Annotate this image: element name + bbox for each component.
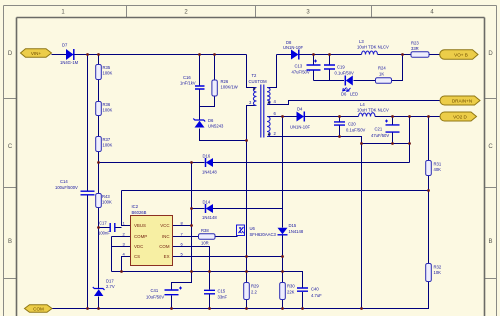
svg-text:R38: R38 — [201, 228, 209, 233]
zener D9 — [193, 119, 205, 128]
capacitor C40 — [297, 288, 308, 291]
svg-text:R23: R23 — [411, 41, 419, 46]
wire pin2 stub — [112, 236, 131, 238]
port COM — [25, 305, 53, 313]
svg-text:D15: D15 — [289, 223, 297, 228]
capacitor C16 — [195, 86, 205, 89]
zener D17 — [93, 287, 105, 296]
wire secondary1 top riser — [267, 55, 277, 88]
svg-text:C21: C21 — [375, 127, 383, 132]
wire COM rail — [52, 282, 429, 309]
junction dots COM rail — [86, 307, 89, 310]
LED D6 — [343, 76, 353, 92]
svg-text:C20: C20 — [348, 122, 356, 127]
svg-text:0.1uF/50V: 0.1uF/50V — [335, 71, 355, 76]
svg-text:EX: EX — [164, 254, 170, 259]
svg-text:VO+ B: VO+ B — [454, 53, 468, 58]
wire pin4 drain rail — [267, 101, 440, 105]
wire C20 drop — [339, 117, 341, 137]
svg-text:C19: C19 — [337, 65, 345, 70]
svg-text:D4: D4 — [297, 107, 303, 112]
transformer T2 secondary top coil — [267, 88, 270, 105]
wire C40 branch — [283, 272, 303, 288]
wire secondary2 rail2 — [267, 116, 440, 118]
wire primary top drop — [247, 55, 257, 88]
svg-text:4.7uF: 4.7uF — [311, 293, 322, 298]
wire R31 bottom — [428, 176, 430, 191]
wire railB feedback — [122, 190, 429, 192]
inductor L4 — [359, 113, 376, 117]
optocoupler U6 — [237, 225, 245, 236]
capacitor C21 electrolytic — [385, 120, 400, 133]
resistor R26 — [212, 80, 217, 96]
resistor R37 — [96, 137, 102, 152]
capacitor C14 — [81, 191, 95, 195]
svg-text:1N4148: 1N4148 — [202, 170, 217, 175]
svg-text:D6 LED: D6 LED — [341, 92, 358, 97]
wire pin5 EX rail — [173, 256, 283, 258]
resistor R43 — [96, 194, 102, 208]
svg-text:10uF/50V: 10uF/50V — [146, 295, 164, 300]
junction dots railA — [97, 161, 100, 164]
svg-text:100K: 100K — [103, 71, 113, 76]
resistor R36 — [96, 102, 102, 116]
svg-text:2.7V: 2.7V — [106, 284, 115, 289]
junction dots rail54 — [86, 53, 89, 56]
svg-text:10R: 10R — [201, 240, 209, 245]
junction dot primary return — [245, 139, 248, 142]
svg-text:10K: 10K — [434, 270, 442, 275]
svg-text:R35: R35 — [103, 65, 111, 70]
wire pin8 stub — [173, 225, 192, 227]
svg-text:VBUS: VBUS — [134, 223, 146, 228]
svg-text:D16: D16 — [203, 154, 211, 159]
svg-text:R24: R24 — [378, 66, 386, 71]
transformer T2 secondary bottom coil — [267, 117, 270, 137]
svg-text:100K: 100K — [103, 108, 113, 113]
resistor R32 — [426, 264, 432, 282]
port VO+ B — [440, 50, 478, 60]
row ticks — [4, 99, 17, 279]
svg-text:R32: R32 — [434, 265, 442, 270]
svg-text:22K: 22K — [287, 290, 295, 295]
svg-text:C13: C13 — [295, 64, 303, 69]
capacitor C19 — [324, 65, 335, 69]
resistor R30 — [280, 283, 286, 300]
wire primary return down to opto — [246, 141, 248, 283]
svg-text:100K: 100K — [103, 143, 113, 148]
wire snubber bottom link — [200, 90, 215, 107]
resistor R35 — [96, 65, 102, 80]
svg-text:C17: C17 — [99, 221, 107, 226]
wire mid ground riser — [361, 144, 363, 309]
svg-text:0.1uF/50V: 0.1uF/50V — [346, 128, 366, 133]
svg-text:1nF/1kV: 1nF/1kV — [180, 81, 196, 86]
wire rail143 — [362, 143, 410, 145]
wire railC — [192, 208, 283, 210]
wire C41 bottom — [171, 296, 173, 309]
wire C19 drop — [329, 55, 331, 81]
svg-text:D17: D17 — [106, 279, 114, 284]
svg-text:CUSTOM: CUSTOM — [249, 79, 268, 84]
wire pin1 VBUS riser — [122, 191, 131, 226]
svg-text:10uH TDK NLCV: 10uH TDK NLCV — [357, 107, 389, 112]
svg-text:R43: R43 — [102, 194, 110, 199]
wire C40 bottom — [302, 292, 304, 309]
junction dots EX rail — [245, 255, 248, 258]
diode D8 — [291, 50, 299, 60]
svg-text:UN5243: UN5243 — [208, 124, 224, 129]
svg-text:C15: C15 — [218, 289, 226, 294]
resistor R38 — [199, 234, 216, 240]
svg-text:47uF/50V: 47uF/50V — [292, 70, 310, 75]
svg-text:D14: D14 — [203, 200, 211, 205]
svg-text:33R: 33R — [411, 46, 419, 51]
svg-text:INC: INC — [162, 234, 170, 239]
resistor R23 — [411, 52, 429, 58]
svg-text:40K: 40K — [434, 167, 442, 172]
port DRAIN — [440, 96, 480, 105]
svg-text:SFH620AAC3: SFH620AAC3 — [250, 232, 277, 237]
wire C21 drop — [392, 117, 394, 144]
svg-text:10uH TDK NLCV: 10uH TDK NLCV — [357, 44, 389, 49]
svg-text:CS: CS — [134, 254, 140, 259]
svg-text:C14: C14 — [60, 179, 68, 184]
transformer T2 primary coil — [253, 88, 256, 106]
svg-text:COM: COM — [159, 244, 170, 249]
diode D15 — [278, 228, 288, 235]
capacitor C20 — [334, 122, 345, 125]
wire R35 chain — [98, 55, 100, 309]
capacitor C41 electrolytic — [165, 287, 183, 295]
svg-text:100K/1W: 100K/1W — [221, 85, 238, 90]
wire zener D9 drop — [199, 107, 201, 120]
wire C15 bottom — [209, 295, 211, 309]
wire LED return rail — [314, 55, 403, 81]
column ticks — [127, 6, 372, 18]
wire CS rail — [112, 271, 283, 273]
svg-text:U6: U6 — [250, 226, 256, 231]
IC2 body — [131, 216, 173, 266]
svg-text:B: B — [8, 239, 12, 245]
wire secondary1 output rail — [277, 54, 441, 56]
svg-text:UN1N-10F: UN1N-10F — [290, 125, 310, 130]
svg-text:D: D — [488, 51, 493, 57]
wire pin7 stub to R38 — [173, 236, 199, 238]
wire C41 jog — [172, 272, 192, 290]
junction dots railC — [190, 207, 193, 210]
svg-text:R37: R37 — [103, 137, 111, 142]
wire R30 bottom — [282, 300, 284, 309]
svg-text:C40: C40 — [311, 287, 319, 292]
svg-text:1N4148: 1N4148 — [289, 229, 304, 234]
wire C14 branch bottom — [87, 196, 89, 309]
wire C13 drop — [313, 55, 315, 81]
svg-text:VIN+: VIN+ — [31, 51, 42, 56]
wire D15 to R30 — [282, 235, 284, 283]
wire C16 top drop — [199, 55, 201, 86]
svg-text:R26: R26 — [221, 79, 229, 84]
capacitor C17 — [110, 223, 115, 232]
svg-text:UN1N-10F: UN1N-10F — [283, 45, 303, 50]
svg-text:2.2: 2.2 — [251, 290, 257, 295]
svg-text:1N4G-1M: 1N4G-1M — [60, 60, 79, 65]
wire rail2 to railA riser — [409, 117, 411, 163]
svg-text:47uF/50V: 47uF/50V — [371, 133, 389, 138]
resistor R29 — [244, 283, 250, 300]
diode D4 — [297, 112, 305, 122]
svg-text:1K: 1K — [379, 72, 384, 77]
transformer polarity dots — [253, 88, 270, 136]
svg-text:DRAIN+N: DRAIN+N — [452, 99, 472, 104]
svg-text:COM: COM — [33, 307, 44, 312]
wire railA — [99, 162, 410, 164]
svg-text:L4: L4 — [360, 102, 365, 107]
svg-text:R29: R29 — [251, 284, 259, 289]
svg-text:IC2: IC2 — [132, 204, 139, 209]
diode D7 — [66, 49, 74, 60]
svg-text:COMP: COMP — [134, 234, 147, 239]
svg-text:C16: C16 — [183, 75, 191, 80]
wire VCC riser — [191, 163, 193, 272]
port VIN+ — [21, 49, 52, 58]
svg-text:33nF: 33nF — [218, 295, 228, 300]
wire C17 tap — [99, 227, 122, 229]
junction dot C17 tap — [97, 226, 100, 229]
capacitor C15 — [204, 290, 215, 294]
wire VIN+ rail — [52, 54, 247, 56]
wire pin4 CS drop — [122, 257, 131, 272]
svg-text:D6: D6 — [208, 118, 214, 123]
svg-text:B: B — [488, 239, 492, 245]
port VO2 D — [440, 112, 477, 121]
wire R38 to opto — [215, 236, 238, 238]
wire D15 riser — [282, 117, 284, 228]
junction dot pin8 — [190, 224, 193, 227]
inductor L3 — [362, 51, 378, 54]
wire R26 top drop — [214, 55, 216, 81]
wire primary bottom return — [247, 106, 257, 141]
transformer T2 core — [261, 85, 264, 138]
junction dots rail2 — [281, 115, 284, 118]
svg-text:B6026B: B6026B — [132, 210, 147, 215]
wire zener to primary return — [200, 129, 247, 141]
wire R31 top to rail2 — [428, 117, 430, 161]
wire R29 bottom — [246, 300, 248, 309]
svg-text:T2: T2 — [252, 73, 258, 78]
wire R32 top to railB — [428, 191, 430, 264]
junction dots railB — [427, 189, 430, 192]
junction dots CS rail — [120, 270, 123, 273]
wire C14 branch top — [87, 55, 89, 191]
svg-text:D: D — [8, 51, 13, 57]
wire pin3 stub — [112, 237, 131, 272]
diode D14 — [206, 204, 214, 213]
junction dots rail143 — [360, 142, 363, 145]
svg-text:VO2 D: VO2 D — [453, 115, 467, 120]
svg-text:VDC: VDC — [134, 244, 143, 249]
svg-text:1N4148: 1N4148 — [202, 215, 217, 220]
svg-text:D7: D7 — [62, 43, 68, 48]
resistor R31 — [426, 161, 432, 176]
resistor R24 — [376, 78, 392, 84]
svg-text:C: C — [8, 144, 13, 150]
svg-text:100uF/500V: 100uF/500V — [55, 185, 78, 190]
svg-text:100nF: 100nF — [98, 231, 110, 236]
svg-text:R36: R36 — [103, 102, 111, 107]
svg-text:VCC: VCC — [160, 223, 169, 228]
svg-text:L3: L3 — [359, 39, 364, 44]
capacitor C13 electrolytic — [307, 60, 321, 71]
wire pin6 COM drop — [173, 247, 210, 290]
svg-text:C: C — [488, 144, 493, 150]
svg-text:R30: R30 — [287, 284, 295, 289]
wire secondary2 bottom — [267, 137, 362, 144]
svg-text:100K: 100K — [102, 200, 112, 205]
diode D16 — [206, 158, 214, 167]
svg-text:C41: C41 — [151, 288, 159, 293]
svg-text:R31: R31 — [434, 162, 442, 167]
